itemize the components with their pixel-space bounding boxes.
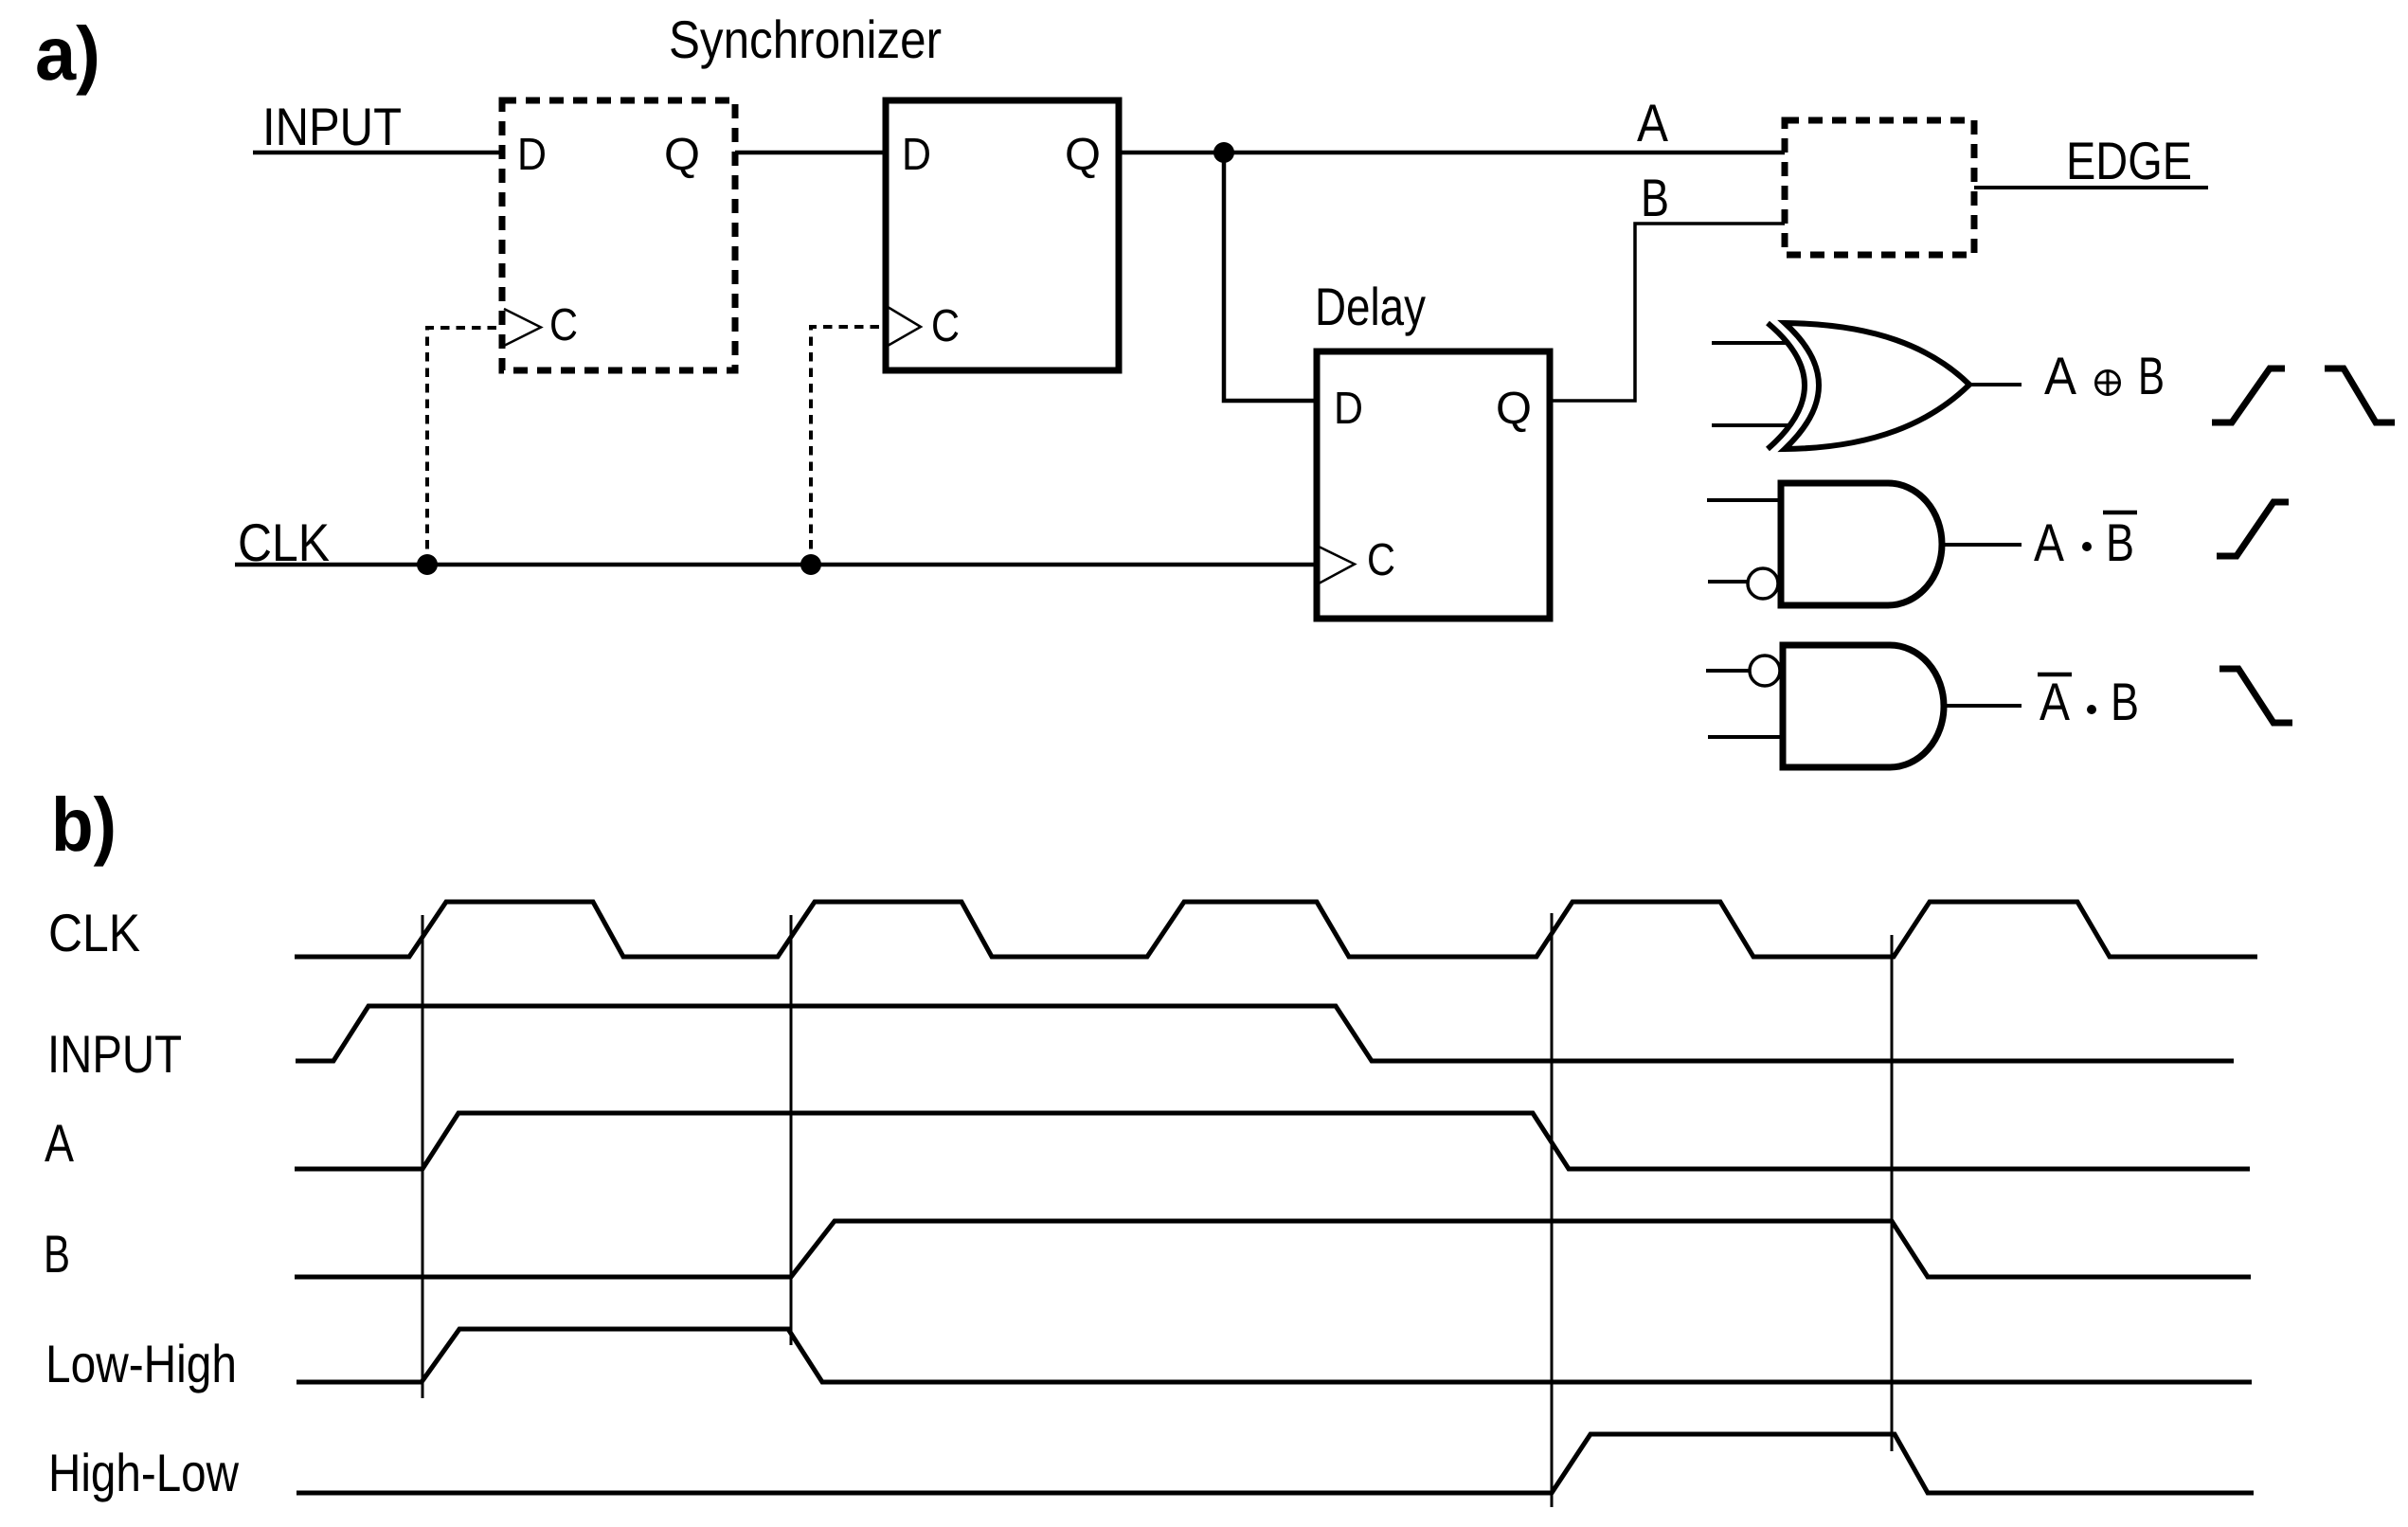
AND gate U2 input wire A [1707,498,1781,502]
dashed clock wire to FF1.C [427,328,502,565]
svg-text:INPUT: INPUT [262,97,402,156]
svg-text:Synchronizer: Synchronizer [669,9,942,69]
XOR gate U1 input wire A [1712,341,1788,345]
vertical reference line 2 (second CLK rising edge) [790,915,793,1345]
svg-text:Delay: Delay [1315,277,1426,336]
svg-text:Q: Q [1496,384,1532,434]
label A xor B : xor symbol circle [2096,371,2120,395]
svg-text:B: B [2111,672,2139,731]
flip-flop FF3 (Delay) [1317,351,1550,619]
wire EDGE output [1974,186,2208,189]
svg-text:CLK: CLK [48,903,140,962]
svg-text:A: A [2044,346,2077,405]
svg-text:B: B [2106,512,2134,572]
vertical reference line 1 (first CLK rising edge) [422,915,424,1398]
svg-text:EDGE: EDGE [2066,131,2192,190]
vertical reference line 4 (fifth CLK rising edge) [1891,935,1894,1451]
B waveform [295,1221,2251,1277]
XOR gate U1 input wire B [1712,423,1788,427]
XOR gate U1 output wire [1969,383,2022,386]
node CLK junction 1 [417,554,438,575]
wire B (FF3.Q up to edge-detect box) [1550,224,1785,401]
svg-text:A: A [1637,93,1669,153]
svg-text:A: A [2034,512,2065,572]
CLK waveform [295,902,2257,957]
XOR gate U1 body [1785,323,1969,449]
svg-text:b): b) [51,782,117,867]
svg-text:INPUT: INPUT [47,1024,182,1084]
falling edge symbol (not-A and B) [2219,669,2292,723]
flip-flop FF1 (synchronizer stage 1, dashed box) [502,100,735,370]
node A junction dot [1213,142,1234,163]
wire CLK [235,563,1317,567]
AND gate U2 output wire [1942,543,2022,547]
svg-text:A: A [45,1113,75,1173]
AND gate U2 body [1781,483,1942,605]
svg-text:B: B [2138,346,2165,405]
A waveform [295,1113,2250,1169]
svg-text:D: D [517,130,547,180]
svg-text:C: C [1367,535,1395,585]
vertical reference line 3 (fourth CLK rising edge) [1551,913,1554,1507]
wire INPUT to FF1.D [253,151,502,155]
label A and not-B : dot [2082,542,2092,551]
label not-A and B : overbar on A [2038,673,2072,677]
falling edge symbol (A xor B) [2325,368,2395,422]
wire node A down to Delay FF D input [1224,153,1317,401]
clock edge triangle (FF3) [1319,547,1355,584]
node CLK junction 2 [800,554,821,575]
label A xor B : xor symbol plus [2095,370,2120,395]
High-Low waveform [297,1434,2254,1493]
flip-flop FF2 (synchronizer stage 2) [886,100,1119,370]
rising edge symbol (A and not-B) [2217,502,2289,556]
svg-text:Q: Q [1065,130,1101,180]
svg-text:B: B [1641,168,1669,227]
svg-text:C: C [549,300,578,350]
svg-text:Q: Q [664,130,700,180]
svg-text:A: A [2040,672,2071,731]
rising edge symbol (A xor B) [2212,368,2285,422]
dashed clock wire to FF2.C [811,327,886,565]
label not-A and B : dot [2087,705,2096,714]
label A and not-B : overbar on B [2103,511,2137,515]
svg-text:B: B [44,1224,70,1284]
XOR gate U1 extra input arc [1768,323,1805,449]
AND gate U2 inverter bubble on B input [1748,568,1778,599]
svg-text:High-Low: High-Low [48,1443,239,1502]
INPUT waveform [296,1006,2234,1061]
Low-High waveform [297,1329,2252,1382]
svg-text:Low-High: Low-High [45,1334,237,1393]
AND gate U3 inverter bubble on A input [1750,656,1780,686]
AND gate U3 body [1783,645,1944,767]
wire A (FF2.Q to edge-detect box) [1119,151,1785,155]
svg-text:D: D [902,130,931,180]
edge-detect logic box (dashed) [1785,120,1974,255]
AND gate U3 output wire [1944,704,2022,708]
svg-text:a): a) [35,11,100,96]
AND gate U3 input wire A stub [1706,669,1749,673]
wire FF1.Q to FF2.D [735,151,886,155]
AND gate U3 input wire B [1708,735,1783,739]
clock edge triangle (FF1) [504,309,541,346]
AND gate U2 input wire B stub [1708,580,1747,584]
clock edge triangle (FF2) [888,307,921,346]
svg-text:D: D [1334,384,1363,434]
svg-text:C: C [931,301,960,351]
